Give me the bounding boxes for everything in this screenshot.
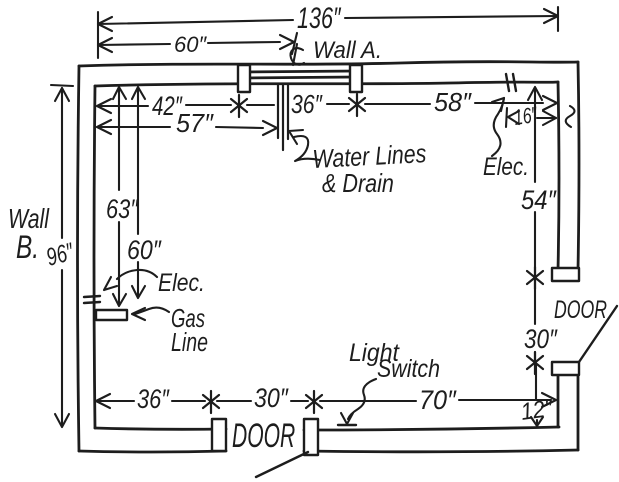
svg-text:57″: 57″ [176, 110, 214, 138]
svg-text:36″: 36″ [291, 91, 323, 120]
svg-text:16″: 16″ [512, 103, 539, 130]
svg-text:B.: B. [16, 230, 39, 266]
svg-text:30″: 30″ [524, 325, 558, 354]
svg-text:DOOR: DOOR [554, 295, 607, 324]
svg-text:Elec.: Elec. [158, 268, 205, 296]
svg-text:Switch: Switch [377, 354, 440, 382]
svg-text:36″: 36″ [137, 385, 170, 415]
svg-text:54″: 54″ [521, 186, 557, 216]
svg-text:60″: 60″ [127, 235, 162, 265]
svg-text:96″: 96″ [43, 237, 77, 272]
svg-text:& Drain: & Drain [322, 169, 394, 198]
svg-text:70″: 70″ [419, 384, 457, 415]
svg-text:136″: 136″ [297, 0, 341, 34]
svg-text:Elec.: Elec. [483, 152, 529, 180]
svg-text:DOOR: DOOR [232, 416, 295, 454]
svg-text:30″: 30″ [254, 383, 289, 413]
svg-text:58″: 58″ [434, 89, 472, 117]
svg-text:Line: Line [171, 327, 208, 356]
svg-text:Wall A.: Wall A. [313, 36, 382, 63]
svg-text:60″: 60″ [174, 32, 207, 57]
svg-text:12″: 12″ [519, 394, 555, 426]
svg-text:63″: 63″ [106, 195, 139, 225]
